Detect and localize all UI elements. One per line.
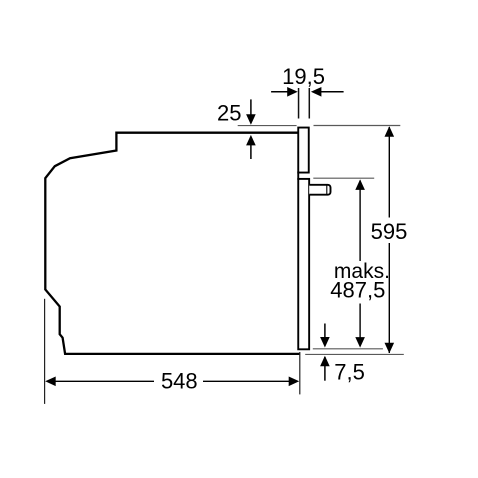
dim 548 line right xyxy=(203,380,290,382)
svg-text:595: 595 xyxy=(371,219,408,244)
dim maks bottom arrow xyxy=(355,337,365,348)
handle cap line xyxy=(326,185,328,195)
dim 25 up arrow xyxy=(250,144,252,159)
dim 548 right arrow xyxy=(289,377,300,387)
dim 19,5 right arrow xyxy=(321,91,344,93)
dim 19,5 extension line left xyxy=(298,88,300,119)
ref line top right xyxy=(314,125,401,127)
dim 595 line lower xyxy=(388,243,390,353)
door left edge joint xyxy=(297,172,299,181)
door upper panel xyxy=(298,128,309,173)
svg-text:7,5: 7,5 xyxy=(334,359,365,384)
dim 19,5 extension line right xyxy=(308,88,310,119)
dim 19,5 left arrow xyxy=(271,91,288,93)
dim 595 top arrow xyxy=(385,126,395,137)
svg-text:548: 548 xyxy=(161,368,198,393)
dim 595 bottom arrow xyxy=(385,343,395,354)
dim 7,5 down arrow xyxy=(324,324,326,339)
dim 548 line left xyxy=(55,380,155,382)
dim 548 left arrow xyxy=(45,377,56,387)
dim 7,5 up arrow xyxy=(324,357,326,381)
dim maks line lower xyxy=(359,304,361,339)
ref line door top left xyxy=(238,125,297,127)
handle xyxy=(309,185,330,195)
door lower panel xyxy=(298,179,309,349)
dim 548 extension line left xyxy=(44,299,46,404)
dim maks top arrow xyxy=(355,179,365,190)
dim maks line upper xyxy=(359,181,361,262)
ref line oven bottom xyxy=(305,353,404,355)
ref line handle level xyxy=(313,177,374,179)
ref line door bottom xyxy=(313,348,383,350)
dim 548 extension line right xyxy=(299,352,301,394)
oven body outline xyxy=(45,133,300,354)
dim 25 down arrow xyxy=(250,99,252,116)
svg-text:487,5: 487,5 xyxy=(330,277,385,302)
dim 595 line upper xyxy=(388,127,390,218)
svg-text:19,5: 19,5 xyxy=(282,64,325,89)
svg-text:25: 25 xyxy=(217,101,241,126)
